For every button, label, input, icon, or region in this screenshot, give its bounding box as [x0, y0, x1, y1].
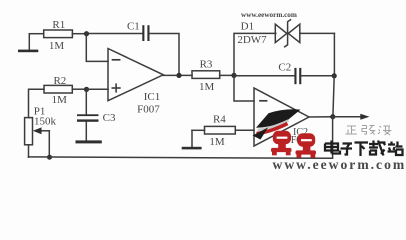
svg-text:R4: R4 — [213, 114, 226, 126]
node C junction — [231, 73, 236, 78]
ground (R4 left) — [182, 130, 202, 149]
svg-text:R3: R3 — [200, 59, 213, 71]
svg-text:1M: 1M — [209, 136, 225, 148]
capacitor C1 — [142, 25, 149, 41]
node F junction — [84, 87, 89, 92]
output arrow wire — [333, 116, 361, 118]
svg-text:1M: 1M — [199, 81, 215, 93]
svg-text:www.eeworm.com: www.eeworm.com — [273, 157, 406, 171]
watermark bug 1 — [271, 131, 292, 156]
wire ground to R1 — [29, 33, 43, 35]
wire IC2 output to node E — [309, 116, 333, 118]
wire C2 to right rail — [301, 75, 334, 77]
wire C3 to ground — [85, 122, 87, 141]
node E junction — [330, 114, 335, 119]
svg-text:1M: 1M — [49, 40, 65, 52]
svg-text:F007: F007 — [137, 103, 160, 115]
capacitor C2 — [294, 68, 301, 84]
svg-text:2DW7: 2DW7 — [237, 34, 267, 46]
wire node C to C2 — [234, 75, 294, 77]
wire node C up to D1 — [234, 33, 276, 75]
svg-text:1M: 1M — [52, 94, 68, 106]
output label sine wave (zheng xian bo) — [346, 126, 391, 136]
svg-text:www.eeworm.com: www.eeworm.com — [241, 11, 297, 19]
wire D1 to right rail — [300, 32, 335, 34]
ground (R1 left) — [18, 34, 38, 52]
watermark bug 2 — [296, 133, 317, 158]
op-amp IC2 — [254, 88, 309, 146]
wire P1 bottom to rail — [28, 145, 30, 157]
op-amp IC1 — [108, 49, 163, 101]
IC2 minus sign — [260, 100, 267, 102]
wire ground to R4 — [192, 129, 205, 131]
resistor R2 — [44, 85, 72, 93]
right vertical wire — [333, 33, 335, 76]
svg-text:D1: D1 — [241, 20, 254, 32]
wire R2 to node F — [72, 88, 86, 90]
svg-text:R1: R1 — [52, 19, 65, 31]
output arrowhead — [360, 114, 369, 120]
wire R1 to node A — [72, 33, 86, 35]
wire node F down to C3 — [85, 89, 87, 114]
wire node A down to IC1 inverting input — [86, 34, 108, 62]
wire IC1 output to R3 — [163, 74, 192, 76]
capacitor C3 — [77, 114, 99, 122]
svg-text:C1: C1 — [127, 21, 140, 33]
svg-text:150k: 150k — [34, 116, 57, 128]
right vertical between node D and node E — [333, 76, 334, 117]
ground (C3 bottom) — [76, 140, 102, 143]
wire node A to C1 — [87, 33, 143, 35]
node D junction (C2 right) — [332, 73, 337, 78]
svg-text:IC1: IC1 — [144, 91, 161, 103]
IC1 minus sign — [113, 59, 120, 61]
node A junction — [84, 31, 89, 36]
wire node F to IC1 noninverting input — [87, 88, 109, 90]
wire R2 left vertical to P1 — [29, 89, 45, 117]
node B junction — [176, 73, 181, 78]
wire node C down to IC2 inverting input — [234, 75, 254, 101]
wire C1 to node B — [150, 34, 180, 76]
resistor R4 — [205, 126, 236, 134]
watermark graduation cap — [253, 109, 301, 139]
IC1 plus sign — [112, 84, 120, 92]
wire R3 to node C — [220, 74, 234, 76]
svg-text:C2: C2 — [278, 62, 291, 74]
resistor R1 — [44, 30, 73, 38]
wire node E down to bottom rail — [332, 117, 334, 158]
bottom rail wire — [29, 157, 333, 158]
diode D1 dual zener — [275, 20, 300, 47]
wire R4 to IC2 noninverting input — [235, 129, 254, 131]
resistor R3 — [192, 71, 220, 79]
potentiometer P1 — [25, 118, 33, 145]
svg-text:R2: R2 — [53, 75, 66, 87]
node G junction on rail — [47, 155, 52, 160]
watermark text dianzi xiazai zhan — [325, 141, 403, 157]
wire wiper down to bottom rail — [48, 131, 50, 157]
P1 wiper arrow — [33, 127, 50, 134]
svg-text:C3: C3 — [103, 112, 116, 124]
